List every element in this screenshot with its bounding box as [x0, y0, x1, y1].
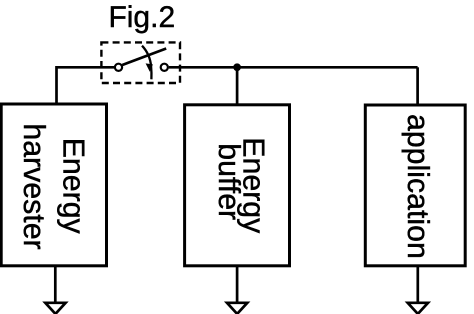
- svg-text:Energy: Energy: [57, 138, 90, 235]
- svg-text:buffer: buffer: [212, 143, 245, 220]
- svg-text:Fig.2: Fig.2: [108, 1, 175, 34]
- svg-text:application: application: [401, 114, 434, 259]
- svg-text:harvester: harvester: [17, 123, 50, 249]
